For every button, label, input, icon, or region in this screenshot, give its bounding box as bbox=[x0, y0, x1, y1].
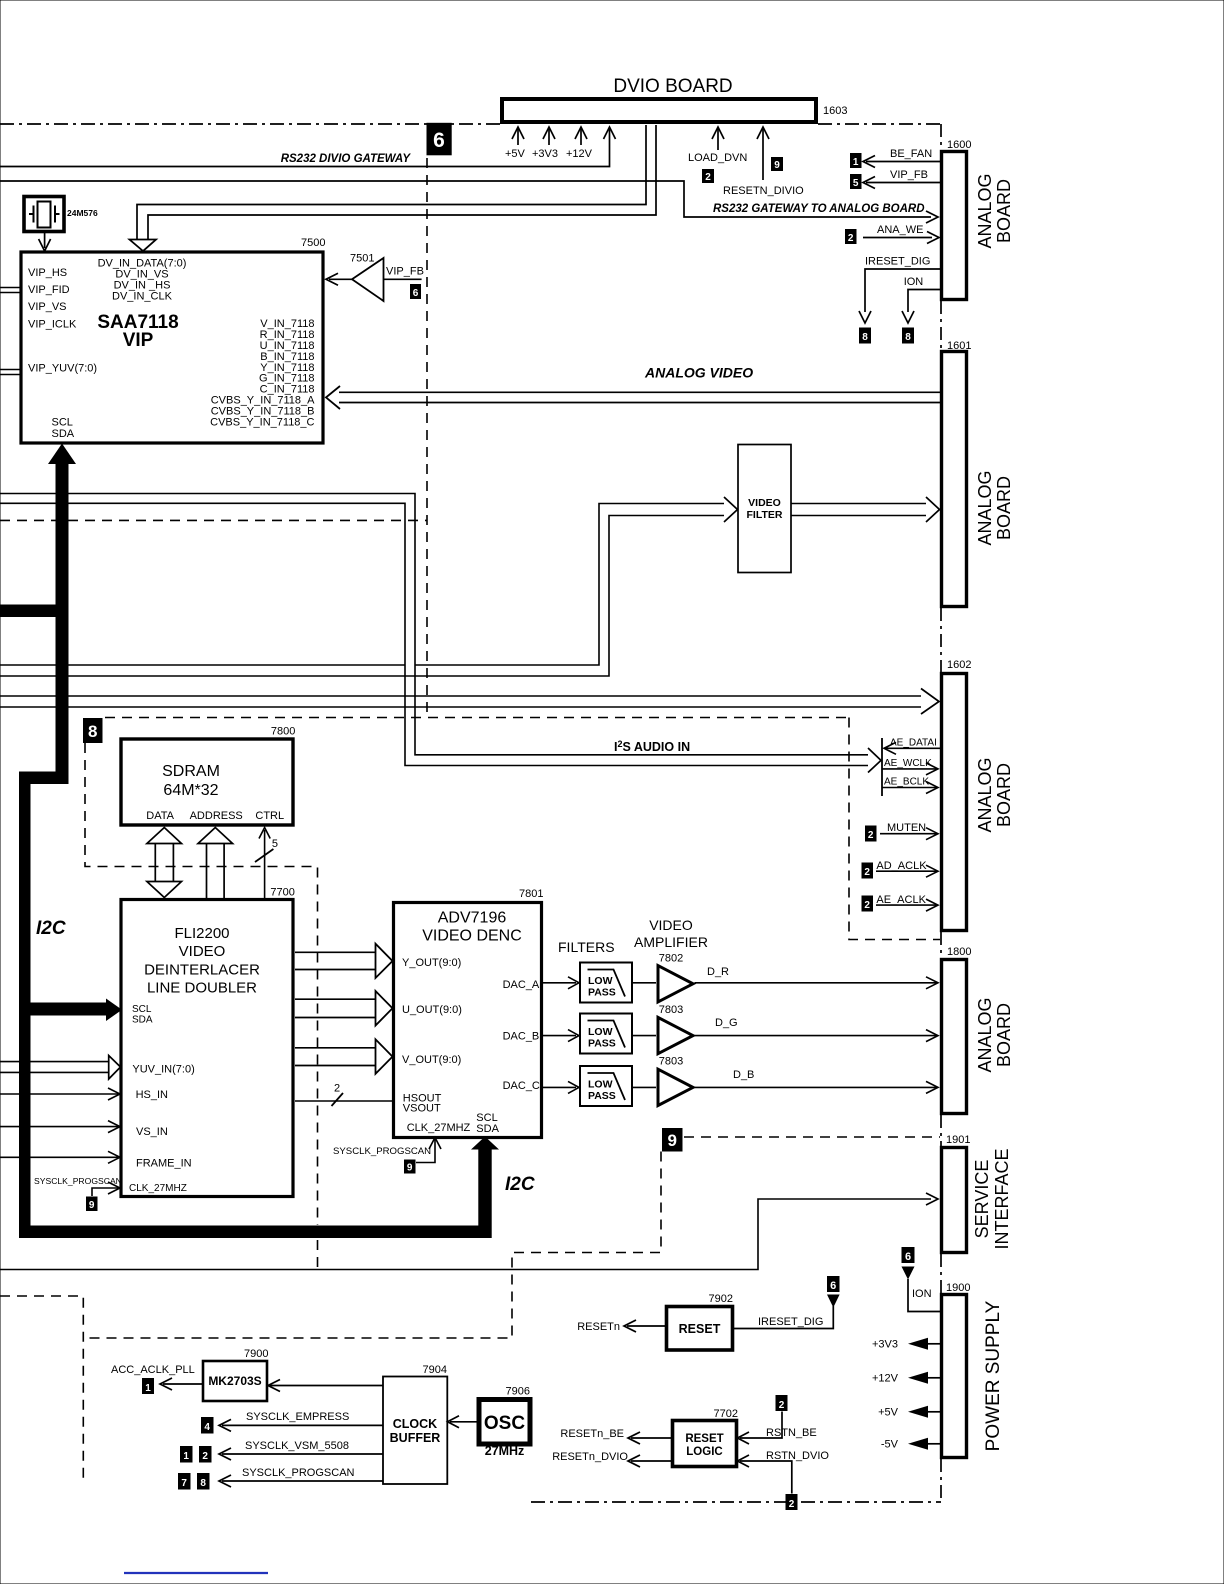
amplifier 7802 bbox=[658, 966, 693, 1002]
svg-text:ANALOG: ANALOG bbox=[975, 757, 995, 832]
svg-text:SDA: SDA bbox=[132, 1015, 153, 1026]
wire RS232 DIVIO gateway bbox=[0, 128, 610, 167]
svg-text:POWER SUPPLY: POWER SUPPLY bbox=[983, 1300, 1004, 1451]
svg-text:6: 6 bbox=[830, 1280, 836, 1292]
connector 1800 bbox=[942, 960, 967, 1114]
svg-text:VIP_FB: VIP_FB bbox=[890, 169, 928, 181]
svg-text:2: 2 bbox=[779, 1400, 785, 1411]
buffer 7501 bbox=[352, 258, 384, 301]
wire filter2 to amp bbox=[632, 1035, 656, 1037]
wire DV bus inner bbox=[148, 125, 656, 240]
wire D_G to 1800 bbox=[695, 1035, 938, 1037]
tag 2 LOAD_DVN bbox=[702, 169, 714, 183]
thick I2C bus jog bbox=[19, 772, 69, 785]
svg-text:ANALOG: ANALOG bbox=[975, 470, 995, 545]
wire stub VIP_HS pair at left edge bbox=[0, 288, 21, 293]
svg-text:VIP_VS: VIP_VS bbox=[28, 301, 67, 313]
svg-text:IRESET_DIG: IRESET_DIG bbox=[865, 256, 930, 268]
svg-text:7803: 7803 bbox=[659, 1004, 683, 1016]
wire VS_IN bbox=[0, 1126, 118, 1128]
svg-text:ANALOG: ANALOG bbox=[975, 173, 995, 248]
svg-text:D_G: D_G bbox=[715, 1017, 738, 1029]
svg-text:9: 9 bbox=[667, 1131, 676, 1150]
wire ION into 1900 bbox=[902, 1267, 915, 1280]
svg-text:7800: 7800 bbox=[271, 726, 295, 738]
wire OSC to clock buffer bbox=[450, 1421, 478, 1423]
tag 2 RSTN_DVIO bbox=[786, 1494, 798, 1510]
tag 5 VIP_FB bbox=[850, 174, 862, 189]
wire AE_WCLK bbox=[882, 768, 937, 770]
svg-text:AE_WCLK: AE_WCLK bbox=[884, 758, 932, 769]
dashed outline section 8 right (audio) bbox=[849, 718, 940, 940]
svg-text:RESETn_DVIO: RESETn_DVIO bbox=[552, 1451, 628, 1463]
svg-text:SDA: SDA bbox=[52, 428, 75, 440]
svg-text:PASS: PASS bbox=[588, 987, 616, 999]
svg-text:LOGIC: LOGIC bbox=[686, 1446, 722, 1458]
wire AD_ACLK bbox=[876, 870, 937, 872]
svg-text:MUTEN: MUTEN bbox=[887, 822, 926, 834]
tag 6 above ION bbox=[902, 1247, 915, 1263]
svg-text:RESET: RESET bbox=[685, 1433, 723, 1445]
wire VIP_FB bbox=[384, 278, 422, 280]
svg-text:7802: 7802 bbox=[659, 953, 683, 965]
thick I2C bus bottom horizontal bbox=[19, 1226, 492, 1239]
wire video filter tap pair bbox=[0, 504, 724, 677]
svg-text:RS232 GATEWAY TO ANALOG BOARD: RS232 GATEWAY TO ANALOG BOARD bbox=[713, 203, 925, 215]
wire SYSCLK_VSM_5508 bbox=[222, 1453, 383, 1455]
IC U7500 SAA7118 VIP box bbox=[21, 252, 323, 443]
wire stub VIP_YUV pair at left edge bbox=[0, 370, 21, 375]
svg-text:VIDEO: VIDEO bbox=[179, 943, 226, 960]
svg-text:CTRL: CTRL bbox=[255, 810, 284, 822]
svg-text:DATA: DATA bbox=[146, 810, 174, 822]
svg-text:1: 1 bbox=[145, 1383, 151, 1394]
svg-text:7801: 7801 bbox=[519, 888, 543, 900]
section marker 9 bbox=[662, 1128, 683, 1152]
blue underline mark bbox=[124, 1572, 268, 1574]
svg-text:ANALOG: ANALOG bbox=[975, 997, 995, 1072]
svg-text:ION: ION bbox=[904, 276, 924, 288]
svg-text:VIP_YUV(7:0): VIP_YUV(7:0) bbox=[28, 363, 97, 375]
tag 9 SYSCLK FLI bbox=[86, 1197, 98, 1212]
wire clockbuffer to MK2703S bbox=[270, 1385, 383, 1387]
svg-text:4: 4 bbox=[204, 1422, 210, 1433]
svg-text:LOW: LOW bbox=[588, 975, 613, 987]
wire RESETn_DVIO bbox=[631, 1460, 673, 1462]
IC 7904 CLOCK BUFFER box bbox=[383, 1377, 447, 1485]
svg-text:1603: 1603 bbox=[823, 105, 847, 117]
svg-text:VIDEO: VIDEO bbox=[649, 917, 693, 933]
svg-text:+3V3: +3V3 bbox=[532, 148, 558, 160]
svg-text:VIDEO DENC: VIDEO DENC bbox=[422, 928, 522, 945]
svg-text:IRESET_DIG: IRESET_DIG bbox=[758, 1316, 823, 1328]
bus width slash 5 bbox=[255, 849, 273, 862]
svg-text:CLK_27MHZ: CLK_27MHZ bbox=[407, 1122, 471, 1134]
thick I2C branch to FLI2200 bbox=[31, 1003, 108, 1016]
svg-text:SCL: SCL bbox=[132, 1004, 152, 1015]
svg-text:SERVICE: SERVICE bbox=[972, 1160, 992, 1239]
wire LOAD_DVN into 1603 bbox=[717, 128, 719, 150]
svg-text:DAC_B: DAC_B bbox=[503, 1031, 540, 1043]
svg-text:AE_BCLK: AE_BCLK bbox=[884, 777, 929, 788]
wire RS232 gateway to analog board bbox=[0, 181, 931, 217]
section marker 8 bbox=[83, 718, 103, 743]
svg-text:RESETN_DIVIO: RESETN_DIVIO bbox=[723, 185, 804, 197]
svg-text:CLK_27MHZ: CLK_27MHZ bbox=[129, 1183, 187, 1194]
svg-text:FILTER: FILTER bbox=[747, 509, 783, 521]
bus ADDRESS arrow bbox=[207, 842, 225, 898]
tag 6 VIP_FB bbox=[410, 284, 421, 299]
wire video bus pair from left edge bbox=[0, 494, 868, 766]
svg-text:1901: 1901 bbox=[946, 1134, 970, 1146]
svg-text:7500: 7500 bbox=[301, 237, 325, 249]
svg-text:I2C: I2C bbox=[36, 918, 66, 939]
svg-text:DAC_C: DAC_C bbox=[503, 1080, 540, 1092]
svg-text:2: 2 bbox=[334, 1083, 340, 1095]
hollow arrowhead into 1601 bbox=[926, 497, 940, 522]
tag 1 SYSCLK_VSM bbox=[180, 1446, 193, 1463]
amplifier 7803 (B) bbox=[658, 1069, 693, 1105]
svg-text:U_OUT(9:0): U_OUT(9:0) bbox=[402, 1004, 462, 1016]
svg-text:1800: 1800 bbox=[947, 946, 971, 958]
svg-text:AMPLIFIER: AMPLIFIER bbox=[634, 934, 708, 950]
IC 7800 SDRAM box bbox=[121, 739, 293, 825]
svg-text:RESETn: RESETn bbox=[577, 1321, 620, 1333]
IC 7906 OSC box bbox=[479, 1400, 530, 1445]
svg-text:VIP_HS: VIP_HS bbox=[28, 267, 67, 279]
svg-text:ACC_ACLK_PLL: ACC_ACLK_PLL bbox=[111, 1364, 195, 1376]
bus Y_OUT arrow FLI to ADV bbox=[295, 952, 377, 969]
IC 7702 RESET LOGIC box bbox=[673, 1421, 737, 1467]
svg-text:CVBS_Y_IN_7118_C: CVBS_Y_IN_7118_C bbox=[210, 417, 314, 429]
svg-text:RESET: RESET bbox=[679, 1322, 721, 1336]
wire -5V bbox=[928, 1443, 942, 1445]
wire RSTN_BE bbox=[740, 1412, 782, 1439]
tag 2 SYSCLK_VSM bbox=[199, 1446, 212, 1463]
svg-text:2: 2 bbox=[848, 233, 854, 244]
wire +5V bbox=[928, 1411, 942, 1413]
wire HSOUT VSOUT bbox=[295, 1100, 394, 1102]
connector 1901 bbox=[942, 1148, 967, 1253]
crystal 24M576 outer box bbox=[24, 197, 64, 232]
svg-text:FRAME_IN: FRAME_IN bbox=[136, 1158, 192, 1170]
svg-text:1900: 1900 bbox=[946, 1282, 970, 1294]
svg-text:LOW: LOW bbox=[588, 1079, 613, 1091]
wire +12V stub into 1603 bbox=[580, 128, 582, 145]
svg-text:7700: 7700 bbox=[270, 887, 294, 899]
wire AE_ACLK bbox=[876, 904, 937, 906]
wire SYSCLK_PROGSCAN into ADV7196 bbox=[416, 1139, 435, 1163]
thick I2C bus arrow into SAA7118 bbox=[48, 444, 76, 465]
wire ACC_ACLK_PLL bbox=[163, 1383, 203, 1385]
svg-text:I2C: I2C bbox=[505, 1174, 535, 1195]
tag 9 SYSCLK ADV bbox=[404, 1160, 416, 1174]
svg-text:BE_FAN: BE_FAN bbox=[890, 148, 932, 160]
svg-text:VIP_FB: VIP_FB bbox=[386, 266, 424, 278]
wire video filter output pair to 1601 bbox=[791, 504, 926, 516]
svg-text:BUFFER: BUFFER bbox=[390, 1431, 441, 1445]
svg-text:ION: ION bbox=[912, 1288, 932, 1300]
svg-text:SCL: SCL bbox=[52, 417, 73, 429]
wire SYSCLK_EMPRESS bbox=[222, 1424, 383, 1426]
svg-text:BOARD: BOARD bbox=[994, 763, 1014, 827]
svg-text:7501: 7501 bbox=[350, 253, 374, 265]
dashed outline section 8 left bbox=[85, 743, 318, 1225]
svg-text:LINE DOUBLER: LINE DOUBLER bbox=[147, 980, 257, 997]
svg-text:+12V: +12V bbox=[872, 1373, 899, 1385]
dashed vertical divider x427 bbox=[426, 158, 428, 718]
svg-text:DV_IN_CLK: DV_IN_CLK bbox=[112, 291, 173, 303]
wire filter1 to amp bbox=[632, 982, 656, 984]
wire IRESET_DIG from 1600 bbox=[865, 269, 942, 312]
svg-text:24M576: 24M576 bbox=[67, 208, 98, 218]
wire AE_BCLK bbox=[882, 787, 937, 789]
svg-text:7900: 7900 bbox=[244, 1348, 268, 1360]
svg-text:7904: 7904 bbox=[423, 1364, 447, 1376]
svg-text:Y_OUT(9:0): Y_OUT(9:0) bbox=[402, 957, 461, 969]
svg-text:+5V: +5V bbox=[505, 148, 526, 160]
svg-text:CLOCK: CLOCK bbox=[393, 1417, 437, 1431]
svg-text:7: 7 bbox=[181, 1478, 187, 1489]
svg-text:2: 2 bbox=[202, 1451, 208, 1462]
svg-text:8: 8 bbox=[862, 332, 868, 343]
wire DV bus outer (1603 to SAA7118) bbox=[137, 125, 646, 240]
svg-text:+5V: +5V bbox=[878, 1407, 899, 1419]
svg-text:ADDRESS: ADDRESS bbox=[190, 810, 243, 822]
wire IRESET_DIG to tag6 bbox=[733, 1306, 833, 1329]
svg-text:1600: 1600 bbox=[947, 139, 971, 151]
svg-text:VIP_FID: VIP_FID bbox=[28, 284, 70, 296]
wire buffer to SAA7118 bbox=[329, 278, 352, 280]
svg-text:5: 5 bbox=[272, 838, 278, 850]
wire RESETn bbox=[627, 1325, 667, 1327]
amplifier 7803 (G) bbox=[658, 1017, 693, 1053]
svg-text:FILTERS: FILTERS bbox=[558, 939, 615, 955]
svg-text:DVIO BOARD: DVIO BOARD bbox=[613, 76, 732, 97]
wire +3V3 stub into 1603 bbox=[548, 128, 550, 145]
svg-text:INTERFACE: INTERFACE bbox=[992, 1148, 1012, 1249]
hollow arrowhead into video filter bbox=[724, 497, 738, 522]
svg-text:ANALOG VIDEO: ANALOG VIDEO bbox=[644, 365, 753, 381]
hollow arrowhead into 1602 bbox=[921, 689, 939, 715]
wire filter3 to amp bbox=[632, 1086, 656, 1088]
svg-text:AE_ACLK: AE_ACLK bbox=[876, 894, 926, 906]
svg-text:9: 9 bbox=[89, 1200, 95, 1211]
svg-text:6: 6 bbox=[905, 1251, 911, 1263]
svg-text:VIDEO: VIDEO bbox=[748, 497, 781, 509]
svg-text:7702: 7702 bbox=[714, 1408, 738, 1420]
svg-text:I2S AUDIO IN: I2S AUDIO IN bbox=[614, 739, 690, 754]
tag 2 AE_ACLK bbox=[862, 896, 874, 912]
IC 7801 ADV7196 box bbox=[394, 903, 542, 1138]
connector 1600 bbox=[942, 152, 967, 300]
tag 8 SYSCLK_PROGSCAN bbox=[197, 1473, 210, 1490]
board boundary dash-dot top-left bbox=[0, 123, 500, 125]
svg-text:8: 8 bbox=[905, 332, 911, 343]
thick I2C riser to ADV7196 bbox=[478, 1148, 491, 1238]
svg-text:6: 6 bbox=[413, 288, 419, 299]
thick I2C bus entry from left bbox=[0, 605, 69, 618]
dashed outline section 9 top bbox=[684, 1136, 940, 1138]
wire DAC_A to filter bbox=[542, 982, 577, 984]
IC 7700 FLI2200 box bbox=[121, 900, 293, 1197]
svg-text:2: 2 bbox=[864, 867, 870, 878]
svg-text:1601: 1601 bbox=[947, 340, 971, 352]
filter low pass 2 bbox=[580, 1014, 632, 1054]
tag 9 RESETN_DIVIO bbox=[771, 157, 783, 171]
tag 4 SYSCLK_EMPRESS bbox=[201, 1417, 214, 1434]
svg-text:27MHz: 27MHz bbox=[485, 1444, 525, 1458]
svg-text:SYSCLK_PROGSCAN: SYSCLK_PROGSCAN bbox=[333, 1146, 431, 1157]
svg-text:1: 1 bbox=[183, 1451, 189, 1462]
wire RESETn_BE bbox=[631, 1437, 673, 1439]
hollow arrowhead DV bus into SAA7118 bbox=[130, 240, 157, 252]
svg-text:2: 2 bbox=[789, 1499, 795, 1510]
dashed outline section 9 lower-left bbox=[0, 1296, 83, 1481]
tag 1 BE_FAN bbox=[850, 153, 862, 168]
svg-text:9: 9 bbox=[774, 160, 780, 171]
svg-text:9: 9 bbox=[407, 1163, 413, 1174]
svg-text:ADV7196: ADV7196 bbox=[438, 910, 507, 927]
filter low pass 1 bbox=[580, 963, 632, 1003]
svg-text:AD_ACLK: AD_ACLK bbox=[876, 860, 927, 872]
svg-text:64M*32: 64M*32 bbox=[163, 782, 218, 799]
svg-text:DAC_A: DAC_A bbox=[503, 979, 540, 991]
svg-text:VIP: VIP bbox=[123, 330, 154, 351]
svg-text:+12V: +12V bbox=[566, 148, 593, 160]
svg-text:YUV_IN(7:0): YUV_IN(7:0) bbox=[132, 1064, 194, 1076]
IC 7900 MK2703S box bbox=[203, 1361, 267, 1401]
svg-text:VS_IN: VS_IN bbox=[136, 1126, 168, 1138]
connector 1602 bbox=[942, 674, 967, 931]
svg-text:+3V3: +3V3 bbox=[872, 1339, 898, 1351]
wire SYSCLK_PROGSCAN into FLI2200 bbox=[92, 1188, 118, 1196]
bus U_OUT arrow bbox=[295, 999, 377, 1017]
wire D_B to 1800 bbox=[695, 1086, 938, 1088]
dashed outline section 9 left bbox=[84, 1152, 661, 1339]
svg-text:BOARD: BOARD bbox=[994, 476, 1014, 540]
svg-text:LOAD_DVN: LOAD_DVN bbox=[688, 152, 747, 164]
wire audio bus pair to 1602 bbox=[0, 696, 921, 707]
tag 1 ACC_ACLK_PLL bbox=[142, 1378, 154, 1394]
svg-text:V_OUT(9:0): V_OUT(9:0) bbox=[402, 1054, 461, 1066]
svg-text:-5V: -5V bbox=[881, 1439, 899, 1451]
svg-text:6: 6 bbox=[433, 129, 445, 152]
filter low pass 3 bbox=[580, 1066, 632, 1106]
wire +12V bbox=[928, 1377, 942, 1379]
svg-text:MK2703S: MK2703S bbox=[208, 1374, 261, 1388]
svg-text:PASS: PASS bbox=[588, 1038, 616, 1050]
wire RESETN_DIVIO into 1603 bbox=[762, 128, 764, 180]
svg-text:RSTN_BE: RSTN_BE bbox=[766, 1427, 817, 1439]
board boundary dash-dot right edge segments bbox=[940, 124, 942, 1502]
svg-text:D_B: D_B bbox=[733, 1069, 754, 1081]
tag 2 ANA_WE bbox=[845, 229, 857, 244]
svg-text:SDRAM: SDRAM bbox=[162, 763, 220, 780]
svg-text:SYSCLK_VSM_5508: SYSCLK_VSM_5508 bbox=[245, 1440, 349, 1452]
wire ANALOG VIDEO bus into SAA7118 bbox=[339, 392, 940, 402]
tag 8 ION bbox=[902, 328, 914, 344]
svg-text:VIP_ICLK: VIP_ICLK bbox=[28, 319, 77, 331]
wire D_R to 1800 bbox=[695, 982, 938, 984]
bus DATA double arrow bbox=[155, 842, 173, 883]
thick I2C bus lower vertical bbox=[19, 772, 31, 1238]
svg-text:AE_DATAI: AE_DATAI bbox=[890, 738, 937, 749]
svg-text:2: 2 bbox=[705, 172, 711, 183]
svg-text:2: 2 bbox=[868, 830, 874, 841]
connector 1603 DVIO board bbox=[502, 99, 816, 122]
svg-text:5: 5 bbox=[853, 178, 859, 189]
wire YUV_IN bus pair bbox=[0, 1062, 110, 1073]
wire DAC_C to filter bbox=[542, 1086, 577, 1088]
dashed line from left at SAA region bbox=[0, 519, 427, 521]
svg-text:8: 8 bbox=[200, 1478, 206, 1489]
wire FRAME_IN bbox=[0, 1156, 118, 1158]
crystal symbol bbox=[38, 202, 51, 228]
tag 2 MUTEN bbox=[865, 826, 877, 842]
connector 1900 bbox=[942, 1295, 967, 1458]
svg-text:FLI2200: FLI2200 bbox=[174, 925, 229, 942]
wire MUTEN bbox=[880, 833, 937, 835]
svg-text:RESETn_BE: RESETn_BE bbox=[560, 1428, 624, 1440]
board boundary dash-dot bottom bbox=[531, 1501, 941, 1503]
svg-text:RS232 DIVIO GATEWAY: RS232 DIVIO GATEWAY bbox=[281, 153, 412, 165]
svg-text:BOARD: BOARD bbox=[994, 179, 1014, 243]
tag 6 IRESET_DIG bottom bbox=[827, 1276, 840, 1292]
svg-text:7803: 7803 bbox=[659, 1056, 683, 1068]
wire CTRL bbox=[264, 830, 266, 898]
svg-text:1602: 1602 bbox=[947, 659, 971, 671]
wire DAC_B to filter bbox=[542, 1035, 577, 1037]
wire HS_IN bbox=[0, 1093, 118, 1095]
wire VIP_FB to 1600 bbox=[866, 182, 942, 184]
connector 1601 bbox=[942, 352, 967, 607]
svg-text:HS_IN: HS_IN bbox=[136, 1089, 168, 1101]
svg-text:SDA: SDA bbox=[476, 1123, 499, 1135]
svg-text:SYSCLK_PROGSCAN: SYSCLK_PROGSCAN bbox=[34, 1176, 122, 1186]
wire +5V stub into 1603 bbox=[517, 128, 519, 145]
IC 7902 RESET box bbox=[667, 1307, 733, 1351]
svg-text:ANA_WE: ANA_WE bbox=[877, 224, 923, 236]
svg-text:RSTN_DVIO: RSTN_DVIO bbox=[766, 1450, 829, 1462]
svg-text:D_R: D_R bbox=[707, 966, 729, 978]
tag 2 RSTN_BE bbox=[776, 1395, 788, 1411]
bus width slash 2 bbox=[332, 1093, 344, 1106]
wire BE_FAN bbox=[866, 161, 942, 163]
svg-text:SYSCLK_EMPRESS: SYSCLK_EMPRESS bbox=[246, 1411, 349, 1423]
wire ANA_WE bbox=[863, 237, 932, 239]
wire AE_DATAI bbox=[884, 747, 942, 749]
svg-text:BOARD: BOARD bbox=[994, 1003, 1014, 1067]
wire RSTN_DVIO bbox=[740, 1461, 792, 1494]
svg-text:1: 1 bbox=[853, 157, 859, 168]
svg-text:7906: 7906 bbox=[506, 1386, 530, 1398]
hollow arrowhead I2S bus at splitter bbox=[868, 748, 881, 773]
wire ION from 1600 bbox=[908, 290, 942, 313]
wire to service interface bbox=[0, 1199, 931, 1270]
svg-text:DEINTERLACER: DEINTERLACER bbox=[144, 962, 260, 979]
section marker 6 bbox=[427, 123, 452, 156]
svg-text:VSOUT: VSOUT bbox=[403, 1103, 441, 1115]
tag 2 AD_ACLK bbox=[862, 863, 874, 879]
bus V_OUT arrow bbox=[295, 1048, 377, 1066]
svg-text:7902: 7902 bbox=[709, 1293, 733, 1305]
svg-text:SYSCLK_PROGSCAN: SYSCLK_PROGSCAN bbox=[242, 1467, 355, 1479]
wire crystal to SAA7118 bbox=[44, 232, 46, 249]
svg-text:8: 8 bbox=[88, 722, 97, 741]
board boundary dash-dot top-right bbox=[818, 123, 941, 125]
svg-text:2: 2 bbox=[864, 900, 870, 911]
